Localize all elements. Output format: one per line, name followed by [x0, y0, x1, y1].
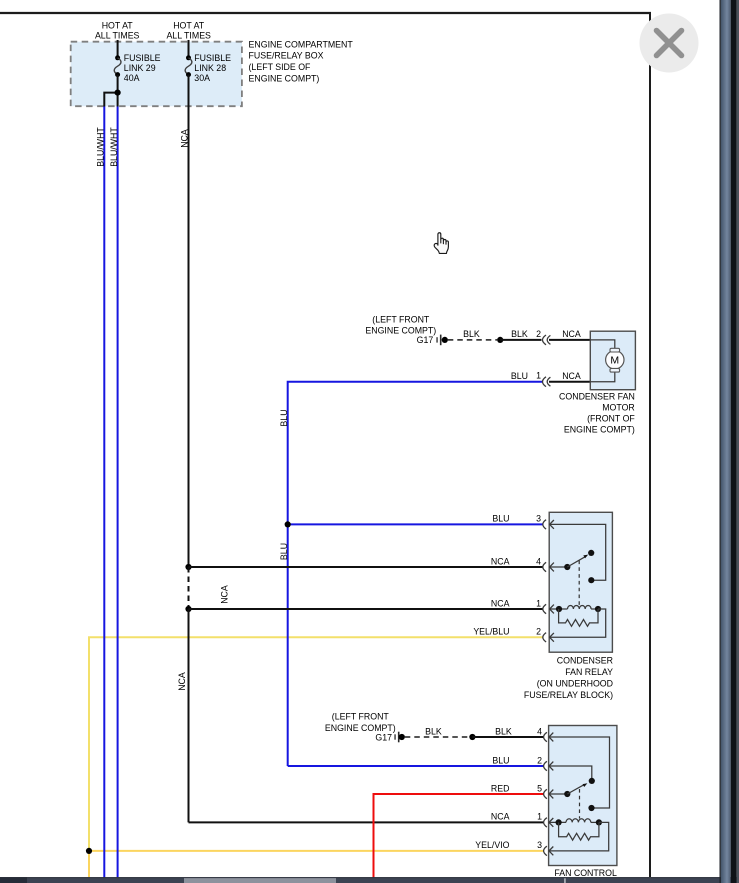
condenser fan relay internals: switch arm from pin 4	[550, 566, 567, 568]
svg-text:1: 1	[537, 812, 542, 822]
svg-text:M: M	[610, 355, 619, 367]
svg-text:3: 3	[537, 840, 542, 850]
svg-text:FUSE/RELAY BLOCK): FUSE/RELAY BLOCK)	[524, 690, 613, 700]
wire NCA to condenser fan relay pin 1	[189, 608, 543, 610]
svg-text:3: 3	[536, 514, 541, 524]
mouse cursor (hand)	[434, 233, 448, 254]
svg-text:1: 1	[536, 598, 541, 608]
fan control relay internals: coil	[549, 821, 566, 823]
svg-text:NCA: NCA	[177, 672, 187, 691]
wire NCA lower vertical	[188, 609, 190, 822]
svg-text:YEL/BLU: YEL/BLU	[473, 627, 509, 637]
fan control relay internals: coil to pin 3	[549, 822, 608, 851]
svg-text:FUSIBLE: FUSIBLE	[124, 53, 161, 63]
svg-text:G17: G17	[417, 335, 434, 345]
wire: feed into fusible link 29	[117, 40, 119, 58]
fan control relay internals: switch arm from pin 5	[549, 793, 567, 795]
node: junction on BLU vertical	[285, 521, 291, 527]
wire BLU/WHT #1	[103, 107, 105, 878]
condenser fan relay internals: coil	[550, 608, 568, 610]
svg-text:FAN CONTROL: FAN CONTROL	[554, 868, 617, 878]
svg-text:BLU/WHT: BLU/WHT	[109, 127, 119, 167]
svg-text:BLU: BLU	[492, 514, 509, 524]
wire: link 28 output (NCA, upper)	[188, 75, 190, 567]
motor M symbol	[590, 340, 615, 348]
wire: branch from junction to left	[104, 93, 117, 107]
svg-text:4: 4	[537, 726, 542, 736]
svg-text:NCA: NCA	[562, 329, 581, 339]
horizontal scrollbar	[0, 877, 739, 883]
wire BLU from motor pin 1 to left and down	[288, 382, 543, 766]
svg-text:LINK 29: LINK 29	[124, 63, 156, 73]
svg-text:FUSE/RELAY BOX: FUSE/RELAY BOX	[249, 51, 324, 61]
node: BLK junction (lower)	[469, 734, 475, 740]
svg-text:NCA: NCA	[491, 598, 510, 608]
frame right border	[649, 12, 651, 877]
svg-text:MOTOR: MOTOR	[602, 402, 635, 412]
condenser fan relay box	[549, 512, 612, 652]
wire YEL/VIO to fan control pin 3	[89, 850, 544, 852]
wire BLK solid to fan control pin 4	[472, 736, 543, 738]
svg-text:ALL TIMES: ALL TIMES	[166, 31, 211, 41]
svg-text:BLK: BLK	[511, 329, 528, 339]
svg-text:40A: 40A	[124, 73, 140, 83]
svg-text:ENGINE COMPT): ENGINE COMPT)	[325, 723, 396, 733]
svg-text:NCA: NCA	[220, 585, 230, 604]
wire: link 29 output to junction	[117, 75, 119, 107]
frame top border	[0, 12, 651, 14]
fan control relay internals: resistor	[559, 822, 599, 840]
svg-text:FAN RELAY: FAN RELAY	[565, 667, 613, 677]
svg-text:ENGINE COMPT): ENGINE COMPT)	[564, 424, 635, 434]
wire BLU to fan control relay pin 2	[288, 765, 544, 767]
node: NCA junction at pin 4 branch	[185, 564, 191, 570]
svg-text:NCA: NCA	[491, 556, 510, 566]
wire BLU/WHT #2	[117, 107, 119, 878]
condenser fan relay internals: coil to pin 2	[550, 609, 606, 637]
svg-text:BLU: BLU	[279, 543, 289, 560]
svg-text:(LEFT FRONT: (LEFT FRONT	[332, 711, 390, 721]
svg-text:BLK: BLK	[495, 726, 512, 736]
svg-text:NCA: NCA	[180, 129, 190, 148]
svg-text:FUSIBLE: FUSIBLE	[194, 53, 231, 63]
svg-text:BLU: BLU	[492, 755, 509, 765]
svg-text:5: 5	[537, 784, 542, 794]
svg-text:(ON UNDERHOOD: (ON UNDERHOOD	[537, 678, 613, 688]
node: yellow junction	[86, 848, 92, 854]
wire YEL vertical below junction	[88, 851, 90, 877]
svg-text:LINK 28: LINK 28	[194, 63, 226, 73]
fan control relay internals: mechanical link (dashed)	[579, 789, 581, 819]
fan control relay internals: pin 4 wire to lower contact	[549, 737, 609, 808]
svg-text:(LEFT SIDE OF: (LEFT SIDE OF	[249, 62, 312, 72]
fusible link 29	[115, 55, 120, 60]
svg-text:HOT AT: HOT AT	[102, 20, 134, 30]
fan control relay internals: pin 2 wire to upper contact	[549, 766, 592, 781]
wire BLU to condenser fan relay pin 3	[288, 523, 543, 525]
wire RED to fan control relay pin 5	[374, 794, 544, 877]
svg-text:(FRONT OF: (FRONT OF	[587, 413, 635, 423]
svg-text:ENGINE COMPT): ENGINE COMPT)	[249, 74, 320, 84]
svg-text:(LEFT FRONT: (LEFT FRONT	[372, 314, 430, 324]
svg-text:CONDENSER FAN: CONDENSER FAN	[559, 391, 635, 401]
condenser fan relay internals: mechanical link (dashed)	[578, 561, 580, 606]
node: BLK junction (upper)	[497, 337, 503, 343]
svg-text:4: 4	[536, 556, 541, 566]
node: NCA junction at pin 1 branch	[185, 606, 191, 612]
wire: feed into fusible link 28	[188, 40, 190, 58]
svg-text:NCA: NCA	[562, 371, 581, 381]
svg-text:30A: 30A	[194, 73, 210, 83]
svg-text:YEL/VIO: YEL/VIO	[475, 840, 509, 850]
svg-text:ENGINE COMPARTMENT: ENGINE COMPARTMENT	[249, 39, 354, 49]
svg-text:CONDENSER: CONDENSER	[557, 656, 613, 666]
svg-text:NCA: NCA	[491, 812, 510, 822]
engine compartment fuse/relay box (dashed)	[71, 42, 242, 107]
svg-text:G17: G17	[375, 732, 392, 742]
node: junction at link 29 output	[115, 90, 121, 96]
svg-text:BLK: BLK	[463, 329, 480, 339]
svg-text:BLU/WHT: BLU/WHT	[96, 127, 106, 167]
svg-text:BLU: BLU	[511, 371, 528, 381]
svg-text:1: 1	[536, 371, 541, 381]
svg-text:2: 2	[536, 329, 541, 339]
wire YEL/BLU from relay pin 2 to left and down	[89, 637, 543, 851]
svg-text:RED: RED	[491, 784, 510, 794]
svg-text:2: 2	[536, 627, 541, 637]
svg-text:HOT AT: HOT AT	[173, 20, 205, 30]
wire NCA to fan control relay pin 1	[189, 821, 544, 823]
condenser fan motor box	[590, 331, 635, 390]
wire NCA dashed vertical segment	[188, 567, 190, 609]
wire BLK dashed (lower)	[405, 736, 469, 738]
fusible link 28	[186, 55, 191, 60]
wire BLK solid to motor pin 2	[500, 339, 541, 341]
svg-text:2: 2	[537, 755, 542, 765]
svg-text:ALL TIMES: ALL TIMES	[95, 31, 140, 41]
condenser fan relay internals: resistor	[559, 609, 598, 626]
wire BLK dashed (upper)	[448, 339, 497, 341]
wire NCA to condenser fan relay pin 4	[189, 566, 543, 568]
svg-text:BLK: BLK	[425, 726, 442, 736]
svg-text:ENGINE COMPT): ENGINE COMPT)	[365, 326, 436, 336]
condenser fan relay internals: pin3 wire to lower contact	[550, 524, 606, 580]
svg-text:BLU: BLU	[279, 409, 289, 426]
close button	[640, 14, 699, 73]
fan control relay box	[549, 726, 617, 866]
